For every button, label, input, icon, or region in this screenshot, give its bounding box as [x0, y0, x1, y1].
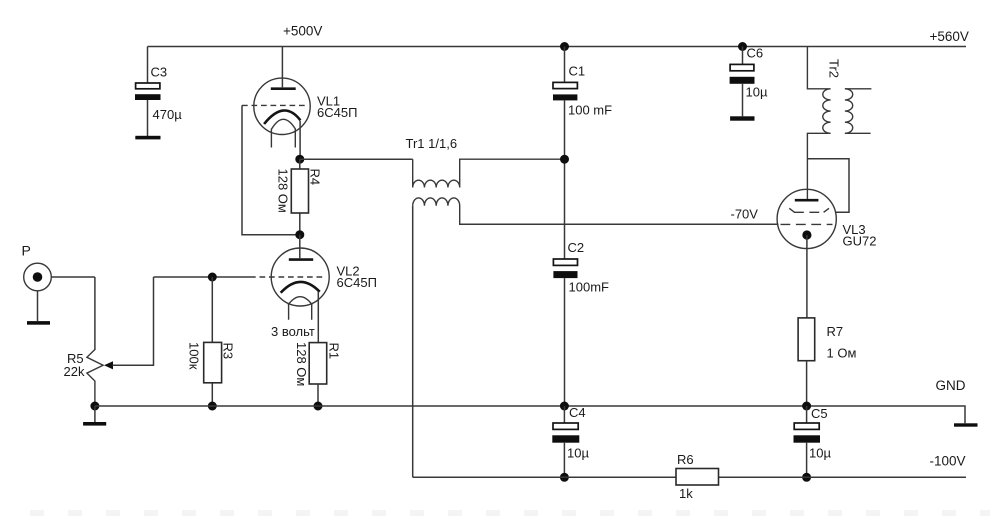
- svg-text:3 вольт: 3 вольт: [271, 324, 315, 339]
- svg-text:1k: 1k: [679, 486, 693, 501]
- svg-text:Tr2: Tr2: [827, 59, 842, 78]
- svg-text:R6: R6: [677, 452, 694, 467]
- svg-text:100 mF: 100 mF: [568, 103, 612, 118]
- svg-text:R7: R7: [827, 324, 844, 339]
- svg-text:22k: 22k: [64, 364, 85, 379]
- svg-text:C5: C5: [811, 406, 828, 421]
- svg-text:C6: C6: [747, 46, 764, 61]
- svg-text:C2: C2: [568, 240, 585, 255]
- svg-text:100к: 100к: [187, 342, 202, 370]
- svg-text:-100V: -100V: [930, 454, 966, 469]
- svg-text:470µ: 470µ: [153, 107, 183, 122]
- svg-text:100mF: 100mF: [569, 280, 610, 295]
- svg-text:6С45П: 6С45П: [337, 275, 377, 290]
- svg-text:R3: R3: [221, 343, 236, 360]
- svg-text:C3: C3: [151, 65, 168, 80]
- svg-text:+560V: +560V: [930, 29, 969, 44]
- svg-text:-70V: -70V: [731, 207, 759, 222]
- svg-text:128 Ом: 128 Ом: [294, 342, 309, 386]
- svg-text:P: P: [22, 243, 31, 259]
- svg-text:1 Ом: 1 Ом: [827, 346, 857, 361]
- svg-text:+500V: +500V: [283, 24, 322, 39]
- svg-text:GND: GND: [936, 378, 966, 393]
- svg-text:R1: R1: [327, 343, 342, 360]
- svg-text:128 Ом: 128 Ом: [276, 169, 291, 213]
- svg-text:C4: C4: [569, 405, 586, 420]
- svg-text:6С45П: 6С45П: [317, 105, 357, 120]
- svg-text:C1: C1: [569, 64, 586, 79]
- svg-text:Tr1 1/1,6: Tr1 1/1,6: [406, 136, 458, 151]
- svg-text:R4: R4: [308, 169, 323, 186]
- svg-text:10µ: 10µ: [567, 446, 589, 461]
- svg-text:10µ: 10µ: [746, 85, 768, 100]
- svg-text:10µ: 10µ: [809, 446, 831, 461]
- svg-text:GU72: GU72: [843, 234, 877, 249]
